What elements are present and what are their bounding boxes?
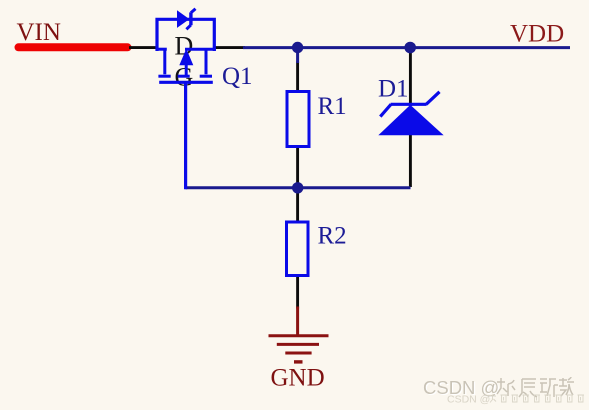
svg-text:GND: GND bbox=[271, 365, 325, 392]
svg-text:R1: R1 bbox=[318, 93, 347, 120]
svg-text:Q1: Q1 bbox=[222, 63, 253, 90]
svg-text:R2: R2 bbox=[318, 223, 347, 250]
svg-text:VDD: VDD bbox=[510, 20, 564, 47]
svg-text:CSDN @: CSDN @ bbox=[447, 393, 490, 405]
svg-text:D1: D1 bbox=[378, 76, 409, 103]
svg-text:VIN: VIN bbox=[17, 19, 61, 46]
